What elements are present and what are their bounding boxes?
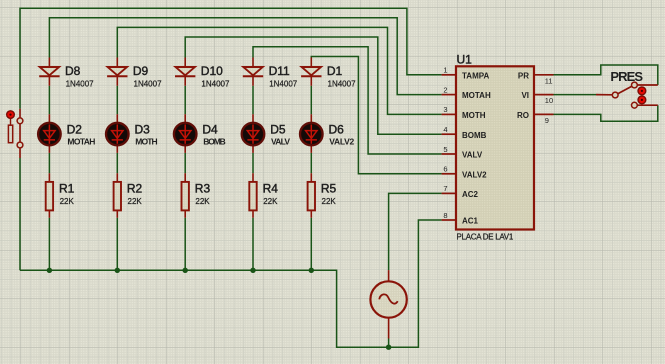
wire: column 2 segments xyxy=(116,86,118,271)
LED D4 xyxy=(174,114,197,153)
pin 1 (TAMPA) xyxy=(442,66,490,81)
svg-text:1N4007: 1N4007 xyxy=(201,79,230,88)
pin 3 (MOTH) xyxy=(442,105,486,120)
pin 6 (VALV2) xyxy=(442,165,488,180)
push button (left) xyxy=(7,109,23,158)
svg-text:D4: D4 xyxy=(202,123,218,137)
wire net VALV2: diode D1 top to chip pin 6 xyxy=(311,57,441,174)
svg-text:PLACA DE LAV1: PLACA DE LAV1 xyxy=(457,232,514,241)
diode D10 (1N4007) xyxy=(175,58,195,86)
svg-text:22K: 22K xyxy=(263,197,278,206)
svg-text:1: 1 xyxy=(443,66,447,75)
svg-text:D2: D2 xyxy=(67,123,83,137)
svg-text:AC2: AC2 xyxy=(462,190,479,199)
svg-text:VI: VI xyxy=(521,91,529,100)
svg-text:BOMB: BOMB xyxy=(203,137,226,147)
svg-text:1N4007: 1N4007 xyxy=(328,79,357,88)
svg-text:MOTAH: MOTAH xyxy=(67,137,95,147)
pin 9 (RO) xyxy=(517,111,554,125)
LED D2 xyxy=(38,114,61,153)
svg-text:D1: D1 xyxy=(327,64,343,78)
svg-text:1N4007: 1N4007 xyxy=(66,79,95,88)
svg-text:D8: D8 xyxy=(65,64,81,78)
resistor R2 (22K) xyxy=(114,173,121,218)
svg-text:BOMB: BOMB xyxy=(462,131,487,140)
junction dot column 5 xyxy=(309,268,314,273)
wire net TAMPA: left rail to pin 1 xyxy=(20,8,442,109)
resistor R4 (22K) xyxy=(249,173,256,218)
diode D11 (1N4007) xyxy=(243,58,263,86)
svg-text:9: 9 xyxy=(545,116,549,125)
pin 7 (AC2) xyxy=(442,184,479,199)
svg-text:D9: D9 xyxy=(133,64,149,78)
svg-text:AC1: AC1 xyxy=(462,217,479,226)
svg-text:7: 7 xyxy=(443,184,447,193)
svg-text:22K: 22K xyxy=(195,197,210,206)
resistor R1 (22K) xyxy=(46,173,53,218)
pin 5 (VALV) xyxy=(442,145,483,160)
diode D9 (1N4007) xyxy=(107,58,127,86)
svg-text:VALV: VALV xyxy=(462,151,483,160)
resistor R5 (22K) xyxy=(308,173,315,218)
svg-text:5: 5 xyxy=(443,145,447,154)
svg-text:1N4007: 1N4007 xyxy=(269,79,298,88)
svg-text:MOTH: MOTH xyxy=(135,137,157,147)
svg-text:6: 6 xyxy=(443,165,447,174)
junction dot column 2 xyxy=(115,268,120,273)
wire net MOTH: diode D9 top to chip pin 3 xyxy=(117,27,441,114)
svg-text:U1: U1 xyxy=(457,52,473,66)
svg-text:1N4007: 1N4007 xyxy=(134,79,163,88)
pin 2 (MOTAH) xyxy=(442,85,491,100)
pin 11 (PR) xyxy=(518,71,554,85)
svg-text:R5: R5 xyxy=(321,181,337,195)
wire net MOTAH: diode D8 top to chip pin 2 xyxy=(49,18,441,95)
resistor R3 (22K) xyxy=(182,173,189,218)
svg-text:D3: D3 xyxy=(135,123,151,137)
svg-text:PR: PR xyxy=(518,71,529,80)
svg-text:MOTAH: MOTAH xyxy=(462,91,491,100)
wire: RO pin 9 to switch throw 2 xyxy=(554,105,658,121)
svg-text:PRES: PRES xyxy=(610,69,643,84)
wire net VALV: diode D11 top to chip pin 5 xyxy=(253,47,442,154)
op-amp / IC U1 PLACA DE LAV1 xyxy=(456,66,534,229)
svg-text:10: 10 xyxy=(545,96,553,105)
svg-text:R3: R3 xyxy=(195,181,211,195)
svg-text:VALV: VALV xyxy=(271,137,290,147)
pin 4 (BOMB) xyxy=(442,125,487,140)
wire: column 3 segments xyxy=(184,86,186,271)
svg-text:8: 8 xyxy=(443,211,447,220)
wire: column 1 segments xyxy=(48,86,50,271)
svg-text:D10: D10 xyxy=(201,64,223,78)
svg-text:D5: D5 xyxy=(270,123,286,137)
svg-text:11: 11 xyxy=(545,76,553,85)
svg-text:D6: D6 xyxy=(329,123,345,137)
wire: bottom rail to AC1 pin 8 xyxy=(20,220,442,347)
svg-text:D11: D11 xyxy=(269,64,290,78)
switch PRES (SPDT) xyxy=(596,82,658,108)
pin 10 (VI) xyxy=(521,91,553,105)
svg-text:2: 2 xyxy=(443,85,447,94)
LED D6 xyxy=(300,114,323,153)
junction dot column 3 xyxy=(183,268,188,273)
svg-text:RO: RO xyxy=(517,111,529,120)
junction dot AC bottom xyxy=(386,345,391,350)
wire: column 4 segments xyxy=(252,86,254,271)
svg-text:22K: 22K xyxy=(128,197,143,206)
wire: AC source bottom to rail xyxy=(388,339,390,348)
diode D1 (1N4007) xyxy=(301,58,321,86)
LED D3 xyxy=(106,114,129,153)
wire: AC2 pin 7 to AC source top xyxy=(389,193,442,270)
svg-text:4: 4 xyxy=(443,125,447,134)
LED D5 xyxy=(242,114,265,153)
svg-text:22K: 22K xyxy=(60,197,75,206)
svg-text:R2: R2 xyxy=(127,181,143,195)
svg-text:MOTH: MOTH xyxy=(462,111,486,120)
junction dot column 4 xyxy=(250,268,255,273)
diode D8 (1N4007) xyxy=(39,58,59,86)
junction dot column 1 xyxy=(47,268,52,273)
pin 8 (AC1) xyxy=(442,211,479,226)
svg-text:3: 3 xyxy=(443,105,447,114)
wire: column 5 segments xyxy=(310,86,312,271)
svg-text:R4: R4 xyxy=(263,181,279,195)
svg-text:R1: R1 xyxy=(59,181,75,195)
svg-text:22K: 22K xyxy=(322,197,337,206)
svg-text:VALV2: VALV2 xyxy=(329,137,354,147)
AC source V1 xyxy=(370,270,406,338)
wire: VI pin 10 to switch pole xyxy=(554,94,597,96)
svg-text:TAMPA: TAMPA xyxy=(462,71,489,80)
wire net BOMB: diode D10 top to chip pin 4 xyxy=(185,37,441,134)
wire: PR pin 11 to switch throw 1 xyxy=(554,65,658,85)
wire: button bottom to ground rail xyxy=(19,158,21,270)
svg-text:VALV2: VALV2 xyxy=(462,170,487,179)
